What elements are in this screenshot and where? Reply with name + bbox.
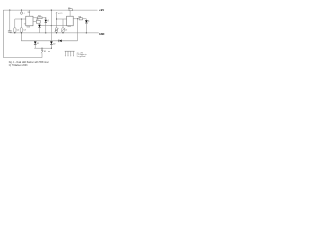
svg-text:to IC1: to IC1 (58, 12, 63, 15)
resistor R2 (33, 19, 40, 25)
wire centre riser (51, 10, 52, 43)
wire bus B (21, 33, 77, 41)
svg-text:+9V: +9V (99, 8, 104, 12)
node test point flag (56, 12, 63, 19)
svg-text:C4: C4 (55, 30, 57, 32)
connector J1 (65, 51, 75, 56)
resistor R3 (33, 15, 46, 19)
capacitor C5 (61, 19, 67, 33)
wire U1 supply feed (28, 10, 30, 16)
wire R4 link (41, 25, 67, 26)
diode D3 (series, bus B) (59, 40, 62, 43)
IC U1 (26, 16, 33, 28)
svg-text:Fig. 1 - Dual LED flasher with: Fig. 1 - Dual LED flasher with 555 timer (9, 61, 49, 64)
resistor R5 (68, 8, 72, 11)
capacitor C1 (8, 10, 12, 33)
wire bottom rail (3, 57, 42, 59)
diode D4 (34, 41, 39, 48)
capacitor C3 (20, 19, 26, 33)
svg-text:C2: C2 (17, 30, 19, 32)
svg-text:3 = ground: 3 = ground (77, 56, 86, 58)
svg-text:D2: D2 (53, 43, 55, 45)
diode D6 (38, 25, 41, 33)
svg-text:C) T.Madsen 2003: C) T.Madsen 2003 (9, 65, 28, 67)
wire diode common (34, 48, 52, 49)
wire U2 input (56, 19, 67, 20)
switch S1 (41, 48, 50, 57)
battery B1 terminal (20, 10, 30, 15)
wire top supply rail (3, 9, 97, 11)
wire U2 supply feed (69, 11, 71, 17)
svg-text:D1: D1 (37, 43, 39, 45)
svg-text:S1: S1 (44, 51, 46, 53)
IC U2 (67, 16, 74, 28)
svg-text:on: on (48, 51, 50, 53)
wire left rail (2, 10, 4, 57)
resistor R6 (73, 17, 86, 21)
wire U1 input (15, 19, 26, 20)
svg-text:C3: C3 (23, 30, 25, 32)
LED D1 (45, 20, 49, 34)
wire bus A (ground bus) (10, 32, 99, 34)
svg-text:C5: C5 (65, 29, 67, 31)
LED D2 (85, 20, 89, 33)
capacitor C2 (14, 19, 20, 33)
capacitor C4 (55, 19, 59, 33)
wire U1 pin stub (24, 23, 26, 25)
J1 pin legend (77, 52, 87, 58)
wire U2 output riser (77, 19, 79, 41)
diode D5 (50, 41, 55, 48)
svg-text:GND: GND (99, 33, 105, 36)
